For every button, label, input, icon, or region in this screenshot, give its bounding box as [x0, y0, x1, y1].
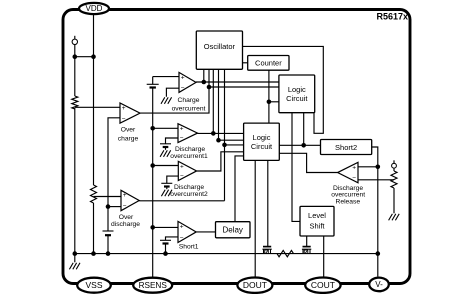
- svg-text:+: +: [122, 105, 126, 112]
- svg-text:Over: Over: [121, 127, 136, 134]
- svg-text:Discharge: Discharge: [175, 146, 205, 153]
- svg-text:Short2: Short2: [335, 143, 357, 152]
- svg-text:V-: V-: [375, 280, 383, 289]
- svg-text:charge: charge: [118, 136, 139, 143]
- svg-text:RSENS: RSENS: [139, 281, 168, 290]
- svg-text:VDD: VDD: [86, 4, 103, 13]
- svg-text:−: −: [180, 173, 184, 180]
- svg-text:−: −: [352, 175, 356, 182]
- svg-text:+: +: [180, 163, 184, 170]
- svg-text:Discharge: Discharge: [174, 184, 204, 191]
- svg-text:discharge: discharge: [111, 221, 140, 228]
- svg-text:Logic: Logic: [253, 133, 271, 142]
- svg-text:Shift: Shift: [309, 222, 325, 231]
- svg-text:Counter: Counter: [255, 59, 282, 68]
- svg-text:Logic: Logic: [288, 85, 306, 94]
- svg-text:−: −: [181, 85, 185, 92]
- svg-text:Short1: Short1: [179, 243, 199, 250]
- svg-text:Delay: Delay: [222, 226, 242, 235]
- svg-text:+: +: [180, 223, 184, 230]
- svg-text:Circuit: Circuit: [286, 94, 308, 103]
- svg-text:−: −: [122, 115, 126, 122]
- svg-text:+: +: [181, 74, 185, 81]
- svg-text:Oscillator: Oscillator: [204, 42, 236, 51]
- svg-text:+: +: [180, 126, 184, 133]
- svg-text:+: +: [352, 164, 356, 171]
- svg-text:COUT: COUT: [311, 280, 335, 290]
- svg-text:overcurrent1: overcurrent1: [170, 153, 208, 160]
- svg-text:overcurrent2: overcurrent2: [170, 191, 208, 198]
- svg-text:−: −: [180, 235, 184, 242]
- svg-text:+: +: [123, 192, 127, 199]
- svg-text:Charge: Charge: [178, 97, 200, 104]
- svg-text:Level: Level: [308, 211, 326, 220]
- svg-text:overcurrent: overcurrent: [172, 105, 206, 112]
- svg-text:−: −: [180, 135, 184, 142]
- svg-text:DOUT: DOUT: [243, 280, 267, 290]
- svg-text:Release: Release: [336, 198, 361, 205]
- svg-text:VSS: VSS: [85, 280, 102, 290]
- svg-text:Over: Over: [119, 214, 134, 221]
- svg-text:R5617x: R5617x: [376, 12, 408, 22]
- svg-text:−: −: [123, 203, 127, 210]
- svg-text:Circuit: Circuit: [251, 142, 273, 151]
